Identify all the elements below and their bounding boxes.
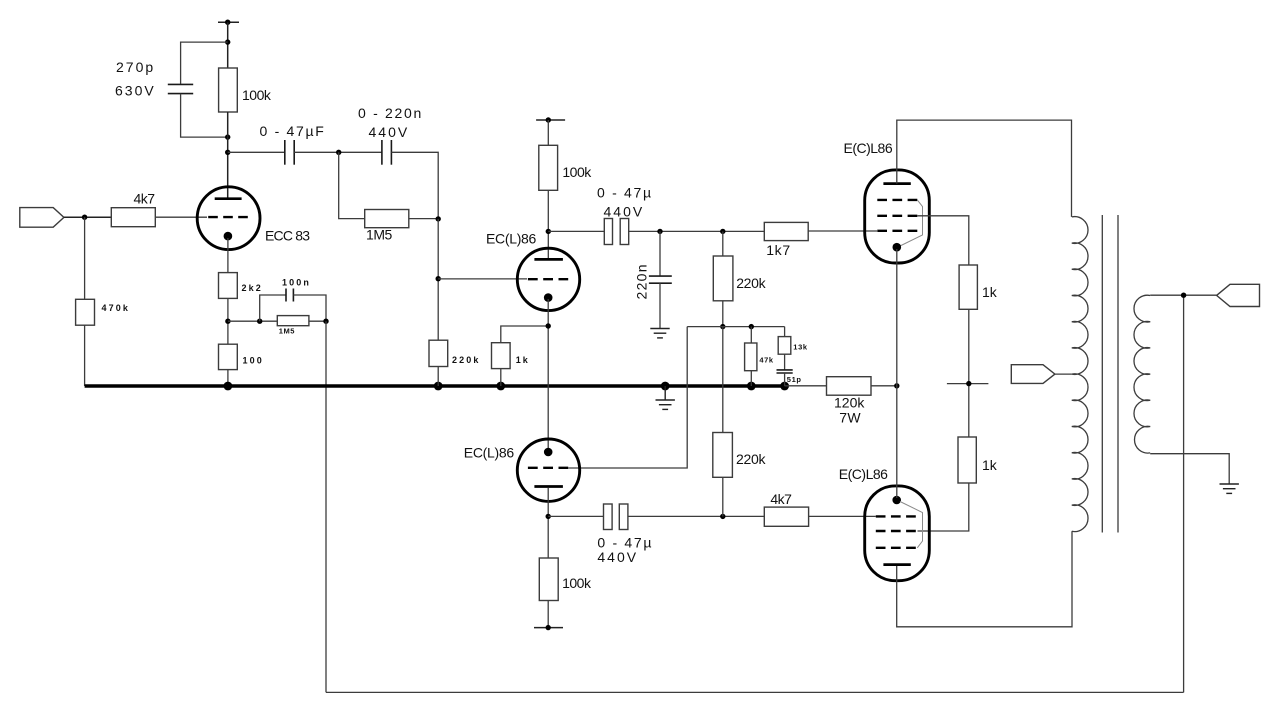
wire	[547, 120, 549, 145]
svg-text:EC(L)86: EC(L)86	[486, 230, 537, 246]
resistor R 100k (anode ECC83)	[219, 68, 238, 112]
wire feedback bottom run	[326, 691, 1184, 693]
wire g1 top tube	[808, 230, 877, 232]
node junction anode	[225, 150, 230, 155]
svg-text:440V: 440V	[597, 549, 638, 565]
svg-text:220n: 220n	[634, 263, 650, 299]
resistor 1M5 (feedback)	[277, 316, 309, 326]
resistor 1M5 (grid leak)	[365, 210, 409, 228]
wire 120k to cathode line	[871, 385, 897, 387]
wire	[309, 320, 326, 322]
resistor 4k7 (grid stopper)	[111, 208, 155, 227]
wire	[659, 231, 661, 276]
svg-text:ECC 83: ECC 83	[265, 228, 310, 244]
node junction anode driver	[546, 229, 551, 234]
pentode-triode EC(L)86 lower (inverted)	[517, 439, 579, 501]
resistor 120k 7W	[827, 377, 872, 396]
svg-text:100n: 100n	[282, 278, 311, 288]
capacitor 0-47uF	[285, 140, 294, 165]
ground (220n)	[650, 329, 669, 338]
wire	[391, 152, 438, 219]
node B+ terminal driver	[536, 117, 565, 122]
svg-text:630V: 630V	[115, 83, 156, 99]
wire grid	[438, 278, 527, 280]
svg-text:440V: 440V	[369, 124, 410, 140]
pentode E(C)L86 bottom (inverted)	[865, 486, 930, 581]
capacitor 51p	[777, 370, 793, 373]
capacitor 270p	[168, 84, 193, 93]
resistor 13k	[778, 337, 791, 355]
svg-text:100k: 100k	[242, 87, 272, 103]
node junction g2 mid	[947, 381, 989, 386]
wire	[500, 369, 502, 386]
wire	[750, 327, 752, 343]
transformer core	[1102, 215, 1118, 533]
resistor 470k	[76, 299, 95, 325]
wire	[437, 367, 439, 387]
node junction top of 100k	[225, 39, 230, 44]
wire 100n loop	[260, 295, 286, 321]
node bus junction 51p	[780, 382, 789, 391]
pentode-triode EC(L)86 upper	[517, 248, 579, 310]
svg-text:51p: 51p	[787, 375, 802, 384]
wire 1M5 bypass	[339, 152, 365, 218]
node junction input	[82, 215, 87, 220]
wire	[409, 218, 438, 220]
resistor 100k (anode driver 1)	[539, 145, 558, 190]
ground (bus)	[656, 386, 675, 409]
node bus junction 47k	[747, 382, 756, 391]
node junction 220k bottom	[720, 514, 725, 519]
node junction below 100k	[225, 134, 230, 139]
wire	[628, 515, 764, 517]
wire	[293, 295, 326, 321]
svg-text:E(C)L86: E(C)L86	[844, 140, 893, 156]
wire 270p branch	[181, 42, 228, 84]
wire	[227, 370, 229, 386]
wire	[227, 22, 229, 68]
svg-text:100: 100	[243, 356, 264, 366]
wire	[64, 216, 111, 218]
triode ECC 83	[197, 187, 260, 250]
svg-text:100k: 100k	[562, 575, 592, 591]
node junction feedback	[323, 319, 328, 324]
wire	[629, 230, 765, 232]
wire cathode to junction	[547, 299, 549, 450]
svg-text:100k: 100k	[562, 164, 592, 180]
wire secondary top	[1150, 294, 1216, 296]
svg-text:1k: 1k	[982, 457, 998, 473]
wire	[784, 373, 786, 386]
node junction cathode line	[894, 383, 899, 388]
wire thin bus to 120k	[785, 385, 827, 387]
node junction	[257, 319, 262, 324]
wire feedback vertical right	[1183, 295, 1185, 692]
resistor 1k (g2 top)	[959, 265, 977, 309]
resistor 220k (upper)	[713, 256, 733, 301]
wire 1k branch	[501, 326, 548, 343]
resistor 100k (lower return)	[539, 558, 558, 601]
wire anode coupling	[548, 230, 604, 232]
node supply terminal bottom	[534, 625, 563, 630]
wire 470k branch	[84, 217, 86, 299]
wire 220k lower drop	[722, 327, 724, 433]
resistor 220k (anode lower driver)	[429, 340, 448, 366]
svg-text:13k: 13k	[793, 343, 808, 352]
resistor 47k	[745, 343, 757, 371]
node junction feedback tap	[1181, 293, 1186, 298]
capacitor 0-47u 440V (lower, bipolar)	[604, 504, 628, 530]
node junction grid EC(L)86	[436, 276, 441, 281]
connector tag output	[1217, 284, 1260, 306]
node junction anode driver 2	[546, 514, 551, 519]
node bus junction 1k	[496, 382, 505, 391]
pentode E(C)L86 top	[865, 170, 930, 263]
svg-text:47k: 47k	[759, 356, 774, 365]
svg-text:470k: 470k	[102, 303, 130, 313]
wire	[84, 325, 86, 386]
transformer primary winding	[1072, 217, 1088, 532]
svg-text:1M5: 1M5	[279, 326, 295, 335]
svg-text:440V: 440V	[604, 203, 645, 219]
wire	[750, 371, 752, 386]
wire center tap	[1055, 373, 1072, 375]
wire	[227, 112, 229, 198]
wire cathode	[227, 238, 229, 273]
svg-text:0 - 47µ: 0 - 47µ	[597, 185, 653, 201]
resistor 100 (cathode)	[219, 344, 238, 369]
wire anode bottom rail	[897, 531, 1072, 627]
resistor 2k2	[219, 273, 238, 299]
node bus junction ground	[661, 382, 670, 391]
connector tag center tap	[1011, 365, 1055, 384]
svg-text:0 - 220n: 0 - 220n	[358, 105, 423, 121]
svg-text:220k: 220k	[736, 451, 766, 467]
wire	[437, 219, 439, 340]
wire	[722, 301, 724, 327]
wire	[722, 477, 724, 516]
wire	[227, 298, 229, 344]
connector input tag	[20, 208, 64, 228]
wire g2 bottom tube	[918, 483, 969, 531]
wire	[547, 190, 549, 258]
resistor 4k7 (lower grid stopper)	[764, 507, 808, 526]
node junction 220k top	[720, 229, 725, 234]
node junction	[436, 216, 441, 221]
wire	[968, 309, 970, 437]
node bus junction 220k	[434, 382, 443, 391]
svg-text:220k: 220k	[736, 275, 766, 291]
node bus junction 100	[224, 382, 233, 391]
resistor 1k (cathode driver)	[492, 343, 511, 369]
wire	[659, 283, 661, 328]
svg-text:EC(L)86: EC(L)86	[464, 444, 515, 460]
wire cathode link both tubes	[896, 249, 898, 498]
node junction 220n	[657, 229, 662, 234]
node junction 47k	[749, 324, 754, 329]
resistor 1k (g2 bottom)	[958, 437, 976, 483]
wire	[155, 216, 207, 218]
ground (secondary)	[1220, 484, 1239, 493]
svg-text:120k: 120k	[834, 395, 865, 411]
svg-text:4k7: 4k7	[134, 191, 156, 207]
node junction cathode driver 1	[546, 323, 551, 328]
svg-text:4k7: 4k7	[770, 491, 792, 507]
wire g1 bottom tube	[809, 515, 876, 517]
svg-text:270p: 270p	[116, 59, 155, 75]
svg-text:1k7: 1k7	[766, 242, 791, 258]
resistor 1k7	[764, 222, 808, 240]
wire coupling	[228, 151, 285, 153]
node junction	[336, 150, 341, 155]
transformer secondary winding	[1134, 295, 1150, 453]
wire anode to junction	[547, 488, 549, 558]
capacitor 100n	[286, 289, 293, 302]
wire 13k branch	[784, 327, 786, 337]
capacitor 220n shunt	[649, 276, 672, 283]
svg-text:220k: 220k	[452, 355, 480, 365]
wire anode top rail	[897, 120, 1072, 217]
svg-text:1M5: 1M5	[366, 227, 393, 243]
wire	[228, 320, 277, 322]
node junction cathode net	[225, 319, 230, 324]
wire	[784, 354, 786, 369]
wire to lower grid	[568, 327, 687, 468]
wire feedback vertical left	[325, 321, 327, 692]
svg-text:0 - 47µF: 0 - 47µF	[260, 123, 326, 139]
wire g2 top tube	[917, 216, 969, 265]
wire secondary bottom	[1150, 454, 1229, 484]
resistor 220k (lower)	[713, 433, 733, 478]
svg-text:1k: 1k	[982, 284, 998, 300]
node B+ terminal top	[218, 20, 239, 25]
wire phase net	[687, 326, 784, 328]
wire	[294, 151, 382, 153]
capacitor 0-47u 440V (upper, bipolar)	[604, 219, 628, 245]
svg-text:7W: 7W	[839, 410, 861, 426]
wire	[547, 601, 549, 628]
svg-text:1k: 1k	[516, 355, 530, 365]
wire ground bus	[85, 384, 785, 387]
wire	[722, 231, 724, 256]
node junction phase net	[720, 324, 725, 329]
svg-text:E(C)L86: E(C)L86	[839, 466, 888, 482]
svg-text:2k2: 2k2	[242, 283, 263, 293]
wire coupling lower	[548, 515, 603, 517]
capacitor 0-220n	[382, 140, 392, 165]
wire	[181, 94, 228, 138]
